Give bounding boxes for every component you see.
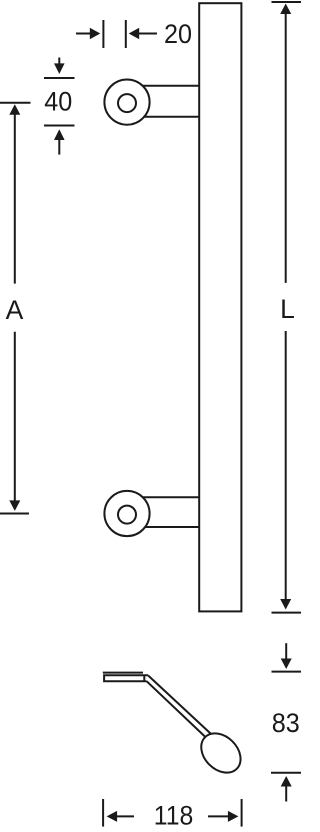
top post flange outer circle	[104, 80, 149, 125]
dim 40: bottom arrowhead	[54, 129, 65, 140]
dim 83: bottom arrowhead	[281, 776, 292, 787]
dim A: top arrowhead	[9, 104, 20, 115]
dim 118: left arrow line	[117, 815, 134, 817]
dim 118: right tick	[241, 799, 243, 827]
dim L: bottom tick	[272, 612, 302, 614]
dim A: bottom tick	[0, 513, 29, 515]
dim 118: left tick	[102, 799, 104, 827]
dim 118: right arrowhead	[228, 811, 239, 822]
dim 40: bottom tick	[44, 125, 75, 127]
dim L: bottom arrowhead	[280, 599, 291, 610]
dim L: top arrowhead	[280, 4, 291, 15]
bottom post hole inner circle	[118, 506, 136, 524]
top post hole inner circle	[118, 94, 136, 112]
dim 20: left extension tick	[102, 20, 104, 48]
top post arm	[132, 86, 199, 117]
side view: strut lower edge	[147, 681, 210, 741]
side view: neck bend edge	[143, 675, 145, 681]
dim A: upper line	[14, 114, 16, 283]
svg-text:20: 20	[164, 19, 192, 49]
dim 83: top tick	[272, 671, 302, 673]
dim 118: left arrowhead	[107, 811, 118, 822]
dim 20: left arrow line	[76, 33, 90, 35]
dim 83: top arrowhead	[281, 659, 292, 670]
dim 20: left arrowhead	[90, 28, 101, 39]
dim 40: top arrowhead	[54, 63, 65, 74]
dim A: bottom arrowhead	[9, 500, 20, 511]
svg-text:118: 118	[154, 801, 194, 831]
dim 20: right arrow line	[139, 33, 157, 35]
dim 20: right extension tick	[125, 20, 127, 48]
dim 83: top arrow line	[285, 643, 287, 659]
dim L: upper line	[285, 14, 287, 283]
dim 118: right arrow line	[208, 815, 228, 817]
side view: grip bar outline	[104, 675, 148, 681]
dim A: lower line	[14, 332, 16, 501]
svg-text:83: 83	[272, 708, 300, 738]
dim 20: right arrowhead	[129, 28, 140, 39]
dim L: lower line	[285, 331, 287, 600]
dim 40: top arrow line	[58, 58, 60, 65]
dim A: top tick	[0, 102, 31, 104]
side view: grip top edge line	[103, 672, 143, 674]
side view: strut upper edge	[148, 676, 215, 738]
svg-text:A: A	[6, 295, 24, 325]
svg-text:L: L	[280, 294, 295, 324]
svg-text:40: 40	[44, 87, 72, 117]
dim 40: bottom arrow line	[58, 140, 60, 155]
bottom post arm	[132, 497, 199, 527]
dim 83: bottom tick	[271, 772, 301, 774]
bottom post flange outer circle	[104, 491, 149, 536]
dim 83: bottom arrow line	[285, 786, 287, 802]
side view: flange ellipse	[193, 726, 248, 781]
handle grip bar (front view)	[199, 3, 241, 611]
dim L: top tick	[272, 1, 302, 3]
dim 40: top tick	[44, 77, 75, 79]
